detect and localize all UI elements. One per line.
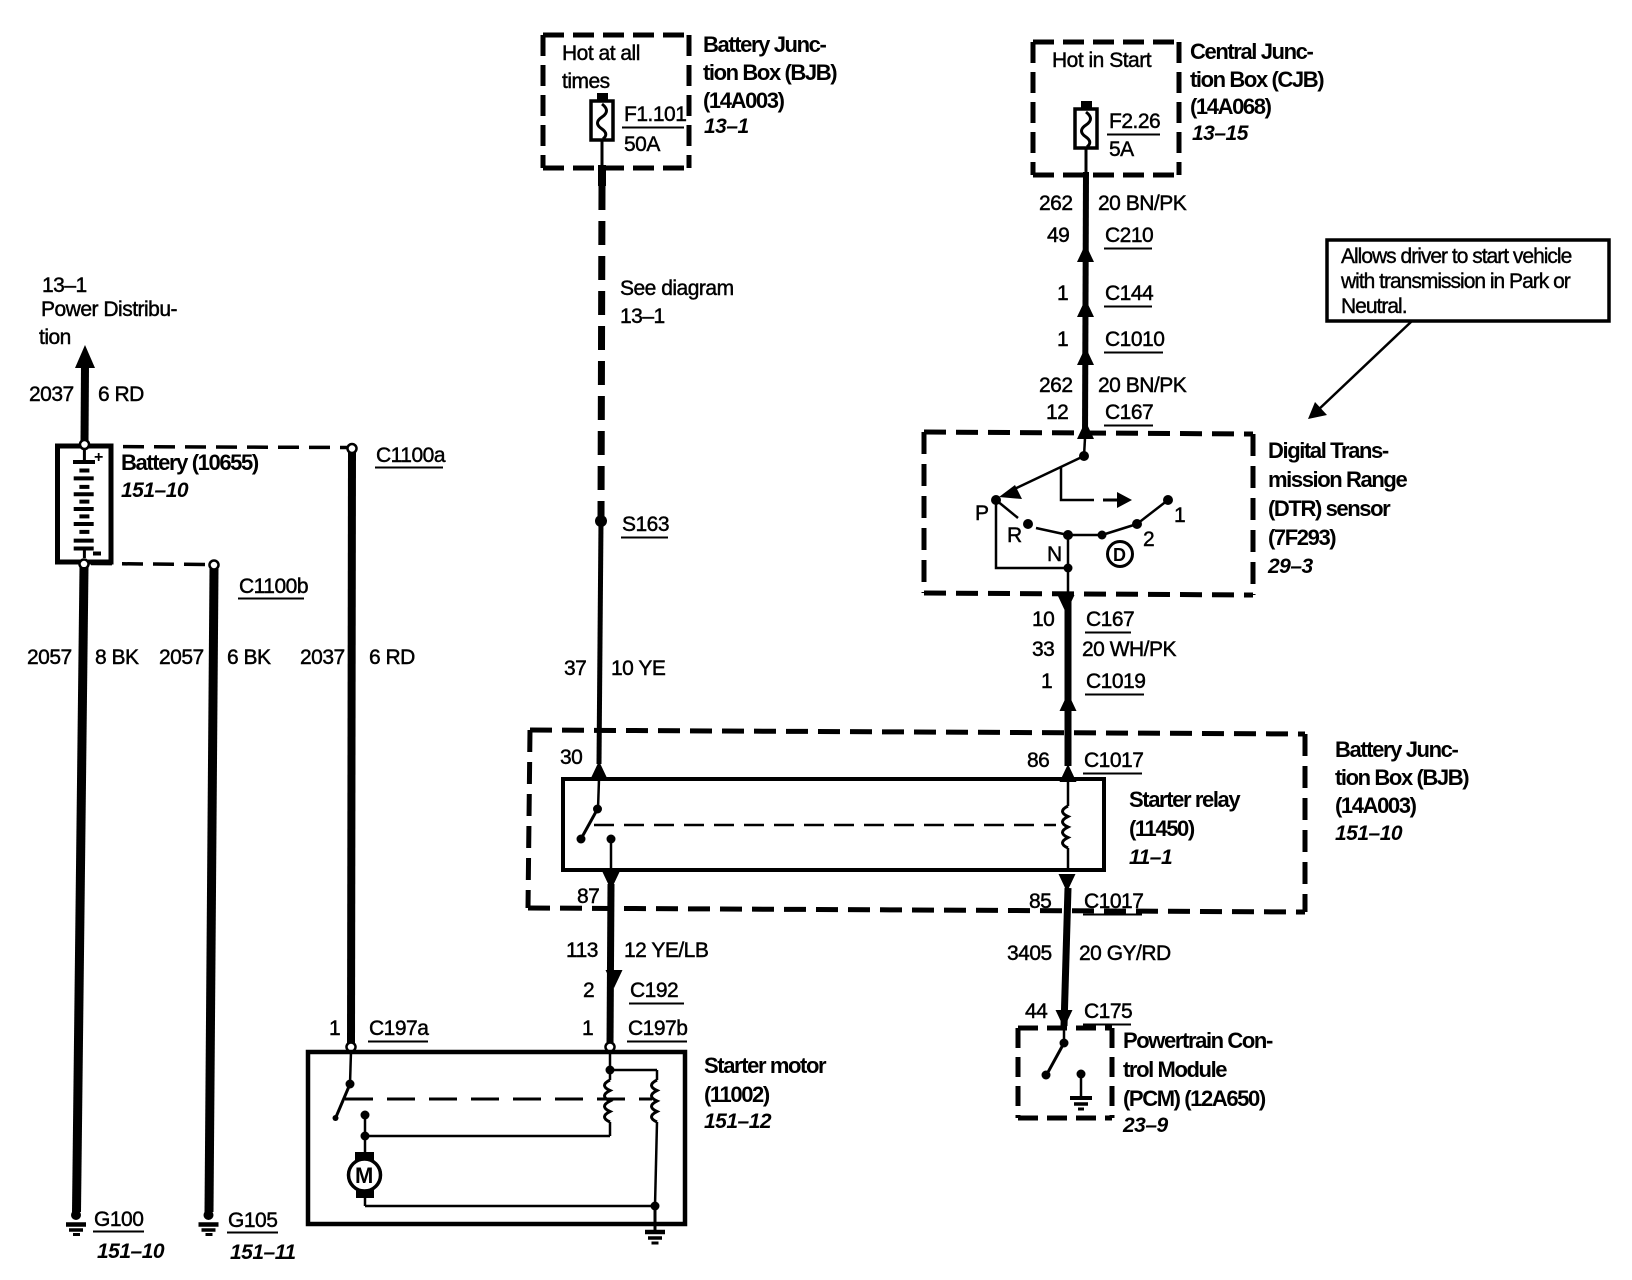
- svg-text:C1017: C1017: [1084, 749, 1143, 772]
- node connector C192 (arrow down): [583, 970, 684, 1004]
- central junction box fuse enclosure (Hot in Start): [1033, 42, 1179, 175]
- svg-text:1: 1: [1057, 282, 1068, 305]
- svg-text:C1100b: C1100b: [239, 575, 308, 598]
- svg-text:(DTR) sensor: (DTR) sensor: [1268, 496, 1391, 521]
- label Battery Junction Box (BJB) top: [703, 32, 837, 138]
- svg-text:with transmission in Park or: with transmission in Park or: [1340, 270, 1571, 293]
- svg-text:20 BN/PK: 20 BN/PK: [1098, 192, 1187, 215]
- svg-text:G105: G105: [228, 1209, 277, 1232]
- svg-text:37: 37: [564, 657, 586, 680]
- ground G105: [199, 1209, 296, 1264]
- battery junction box fuse enclosure (Hot at all times): [543, 35, 689, 168]
- svg-text:Battery (10655): Battery (10655): [121, 450, 259, 475]
- svg-text:tion Box (CJB): tion Box (CJB): [1190, 67, 1324, 92]
- motor M: [349, 1152, 381, 1198]
- svg-text:2057: 2057: [27, 646, 72, 669]
- svg-text:6 RD: 6 RD: [98, 383, 144, 406]
- wire DTR input stub: [1084, 438, 1085, 456]
- svg-text:13–1: 13–1: [42, 274, 87, 297]
- svg-text:20 WH/PK: 20 WH/PK: [1082, 638, 1177, 661]
- svg-text:33: 33: [1032, 638, 1054, 661]
- svg-text:44: 44: [1025, 1000, 1048, 1023]
- svg-text:mission Range: mission Range: [1268, 467, 1407, 492]
- svg-text:Allows driver to start vehicle: Allows driver to start vehicle: [1341, 245, 1572, 268]
- svg-text:G100: G100: [94, 1208, 143, 1231]
- svg-text:(PCM) (12A650): (PCM) (12A650): [1123, 1086, 1266, 1111]
- wire 113 12 YE/LB from relay 87 to C192: [566, 884, 708, 1046]
- wire 2037 6 RD C1100a to starter motor C197a: [300, 452, 415, 1043]
- pin 30 arrow into relay: [560, 746, 608, 779]
- svg-text:C175: C175: [1084, 1000, 1132, 1023]
- DTR selector arm (arrow to P): [999, 456, 1084, 499]
- DTR contact R: [996, 500, 1033, 547]
- svg-text:N: N: [1047, 543, 1062, 566]
- svg-text:(11450): (11450): [1129, 816, 1195, 841]
- svg-text:262: 262: [1039, 374, 1073, 397]
- node 13-1 Power Distribution label: [39, 274, 178, 349]
- node connector C175 (arrow down into PCM): [1025, 1000, 1132, 1028]
- starter relay (11450) box: [563, 779, 1241, 870]
- node splice S163: [595, 513, 669, 538]
- node connector C197a: [329, 1017, 429, 1052]
- svg-text:20 GY/RD: 20 GY/RD: [1079, 942, 1171, 965]
- svg-text:Power Distribu-: Power Distribu-: [41, 298, 178, 321]
- starter solenoid hold-in coil: [652, 1080, 658, 1122]
- svg-text:86: 86: [1027, 749, 1049, 772]
- wire dashed link battery+ to C1100a: [92, 447, 347, 448]
- relay coil: [1063, 806, 1069, 848]
- svg-text:30: 30: [560, 746, 582, 769]
- svg-text:1: 1: [1041, 670, 1052, 693]
- svg-text:1: 1: [582, 1017, 593, 1040]
- svg-text:C1010: C1010: [1105, 328, 1164, 351]
- svg-text:C197b: C197b: [628, 1017, 687, 1040]
- svg-text:1: 1: [1174, 504, 1185, 527]
- svg-text:(7F293): (7F293): [1268, 525, 1336, 550]
- svg-text:C210: C210: [1105, 224, 1153, 247]
- note leader arrow to DTR sensor: [1308, 321, 1412, 419]
- svg-text:(14A003): (14A003): [1335, 793, 1417, 818]
- node connector C197b: [582, 1017, 687, 1052]
- svg-text:D: D: [1113, 545, 1126, 565]
- relay mechanical link (dashed): [594, 824, 1056, 827]
- DTR P-to-N output link: [996, 500, 1073, 597]
- svg-text:C167: C167: [1086, 608, 1134, 631]
- svg-text:Hot at all: Hot at all: [562, 42, 640, 65]
- svg-text:6 BK: 6 BK: [227, 646, 271, 669]
- svg-text:50A: 50A: [624, 133, 660, 156]
- wire coil output to motor branch: [361, 1111, 611, 1154]
- wire 2057 6 BK C1100b to G105: [159, 569, 271, 1212]
- svg-text:2037: 2037: [29, 383, 74, 406]
- svg-text:C167: C167: [1105, 401, 1153, 424]
- svg-text:1: 1: [1057, 328, 1068, 351]
- svg-text:M: M: [355, 1163, 373, 1188]
- svg-text:6 RD: 6 RD: [369, 646, 415, 669]
- svg-text:(11002): (11002): [704, 1082, 770, 1107]
- DTR contact N: [1036, 528, 1073, 566]
- svg-text:13–1: 13–1: [704, 115, 749, 138]
- svg-text:2: 2: [1143, 528, 1154, 551]
- starter solenoid pull-in coil: [605, 1080, 611, 1122]
- digital transmission range (DTR) sensor dashed enclosure: [924, 432, 1253, 595]
- svg-text:Battery Junc-: Battery Junc-: [703, 32, 826, 57]
- svg-text:F1.101: F1.101: [624, 103, 686, 126]
- pin 85 arrow out of relay: [1029, 874, 1143, 915]
- label DTR sensor: [1267, 438, 1407, 578]
- wire hold-in coil to ground rail: [651, 1122, 660, 1230]
- node battery positive terminal circle: [80, 440, 89, 449]
- svg-text:23–9: 23–9: [1122, 1114, 1169, 1137]
- svg-text:Powertrain Con-: Powertrain Con-: [1123, 1028, 1273, 1053]
- node connector C1019 (arrow up): [1041, 670, 1145, 711]
- wire DTR output exits box (arrow down): [1032, 595, 1134, 633]
- svg-text:12: 12: [1046, 401, 1068, 424]
- relay contact 87: [607, 835, 616, 871]
- wire 37 10 YE from S163 to relay pin 30: [564, 521, 666, 764]
- battery junction box (BJB) dashed enclosure around starter relay: [528, 730, 1305, 912]
- relay switch contact 30: [577, 779, 603, 844]
- node DTR input junction: [1079, 451, 1089, 461]
- svg-text:29–3: 29–3: [1267, 555, 1314, 578]
- powertrain control module (PCM) dashed enclosure: [1018, 1028, 1112, 1118]
- DTR contact D (circled): [1068, 531, 1133, 567]
- svg-text:C1017: C1017: [1084, 890, 1143, 913]
- svg-text:Starter relay: Starter relay: [1129, 787, 1241, 812]
- svg-text:trol Module: trol Module: [1123, 1057, 1227, 1082]
- svg-text:(14A003): (14A003): [703, 88, 785, 113]
- svg-text:C1019: C1019: [1086, 670, 1145, 693]
- svg-text:49: 49: [1047, 224, 1069, 247]
- wire 2037 6 RD to power distribution (arrow up): [29, 345, 144, 443]
- node C1100b: [210, 561, 309, 599]
- svg-text:10 YE: 10 YE: [611, 657, 666, 680]
- DTR contact P: [975, 495, 1001, 525]
- svg-text:Battery Junc-: Battery Junc-: [1335, 737, 1458, 762]
- wire 3405 20 GY/RD from relay pin 85 to PCM: [1007, 888, 1171, 1026]
- svg-text:12 YE/LB: 12 YE/LB: [624, 939, 708, 962]
- svg-text:2057: 2057: [159, 646, 204, 669]
- wire 33 20 WH/PK from DTR to relay pin 86: [1032, 597, 1177, 766]
- svg-text:3405: 3405: [1007, 942, 1052, 965]
- svg-text:13–1: 13–1: [620, 305, 665, 328]
- node battery negative terminal circle: [80, 560, 89, 569]
- svg-text:2: 2: [583, 979, 594, 1002]
- svg-text:R: R: [1007, 524, 1022, 547]
- svg-text:+: +: [94, 449, 103, 466]
- node connector C1010 (arrow up): [1057, 328, 1164, 365]
- svg-text:C144: C144: [1105, 282, 1154, 305]
- svg-text:2037: 2037: [300, 646, 345, 669]
- ground starter motor case: [645, 1232, 665, 1243]
- node connector C210 (arrow up): [1047, 224, 1153, 262]
- svg-text:S163: S163: [622, 513, 669, 536]
- svg-text:tion: tion: [39, 326, 71, 349]
- label Battery Junction Box (BJB) right: [1335, 737, 1469, 845]
- starter solenoid input junction: [606, 1051, 658, 1080]
- svg-text:Central Junc-: Central Junc-: [1190, 39, 1313, 64]
- svg-text:Digital Trans-: Digital Trans-: [1268, 438, 1389, 463]
- pin 87 arrow out of relay: [577, 872, 620, 908]
- svg-text:151–11: 151–11: [230, 1241, 296, 1264]
- svg-text:13–15: 13–15: [1192, 122, 1249, 145]
- wire dashed (see diagram 13-1) from fuse to S163: [601, 165, 734, 516]
- node connector C167 (arrow up): [1046, 401, 1153, 439]
- fuse F2.26 5A: [1075, 101, 1160, 174]
- PCM internal ground: [1070, 1070, 1092, 1110]
- svg-text:Starter motor: Starter motor: [704, 1053, 827, 1078]
- svg-text:F2.26: F2.26: [1109, 110, 1160, 133]
- note box: Allows driver to start vehicle: [1327, 240, 1609, 321]
- ground G100: [66, 1208, 165, 1263]
- svg-text:tion Box (BJB): tion Box (BJB): [703, 60, 837, 85]
- svg-text:113: 113: [566, 939, 598, 962]
- svg-text:times: times: [562, 70, 610, 93]
- relay coil leads: [1067, 779, 1070, 806]
- svg-text:10: 10: [1032, 608, 1054, 631]
- svg-text:tion Box (BJB): tion Box (BJB): [1335, 765, 1469, 790]
- svg-text:20 BN/PK: 20 BN/PK: [1098, 374, 1187, 397]
- svg-text:262: 262: [1039, 192, 1073, 215]
- node connector C144 (arrow up): [1057, 282, 1154, 317]
- svg-text:See diagram: See diagram: [620, 277, 734, 300]
- svg-text:151–12: 151–12: [704, 1110, 772, 1133]
- svg-text:85: 85: [1029, 890, 1051, 913]
- svg-text:87: 87: [577, 885, 599, 908]
- svg-text:P: P: [975, 502, 989, 525]
- wire 262 20 BN/PK from CJB fuse to DTR sensor: [1039, 172, 1187, 438]
- svg-text:Hot in Start: Hot in Start: [1052, 49, 1152, 72]
- DTR contact 1: [1137, 495, 1185, 527]
- starter motor solenoid switch (from C197a): [333, 1051, 355, 1121]
- svg-text:C192: C192: [630, 979, 678, 1002]
- svg-text:C1100a: C1100a: [376, 444, 446, 467]
- label PCM: [1122, 1028, 1273, 1137]
- svg-text:151–10: 151–10: [1335, 822, 1403, 845]
- starter motor (11002) box: [308, 1052, 827, 1224]
- svg-text:Neutral.: Neutral.: [1341, 295, 1407, 318]
- DTR contact 2: [1102, 519, 1154, 551]
- PCM internal switch: [1042, 1028, 1069, 1080]
- svg-text:8 BK: 8 BK: [95, 646, 139, 669]
- wire label 262 20 BN/PK (lower): [1039, 374, 1187, 397]
- svg-text:(14A068): (14A068): [1190, 94, 1272, 119]
- svg-text:1: 1: [329, 1017, 340, 1040]
- wire dashed link battery- to C1100b: [91, 564, 209, 565]
- node C1100a: [348, 444, 446, 468]
- svg-text:151–10: 151–10: [97, 1240, 165, 1263]
- svg-text:11–1: 11–1: [1129, 846, 1172, 869]
- svg-text:5A: 5A: [1109, 138, 1134, 161]
- label Central Junction Box (CJB): [1190, 39, 1324, 145]
- starter motor mechanical link (dashed): [345, 1098, 652, 1101]
- svg-text:C197a: C197a: [369, 1017, 429, 1040]
- svg-text:151–10: 151–10: [121, 479, 189, 502]
- battery B1 (10655): [58, 446, 259, 562]
- DTR rotation arrow (elbow with right arrow): [1061, 467, 1132, 508]
- wire motor to ground rail: [365, 1197, 655, 1206]
- pin 86 arrow into relay: [1027, 749, 1143, 782]
- fuse F1.101 50A: [591, 93, 686, 167]
- wire 2057 8 BK battery- to G100: [27, 567, 139, 1212]
